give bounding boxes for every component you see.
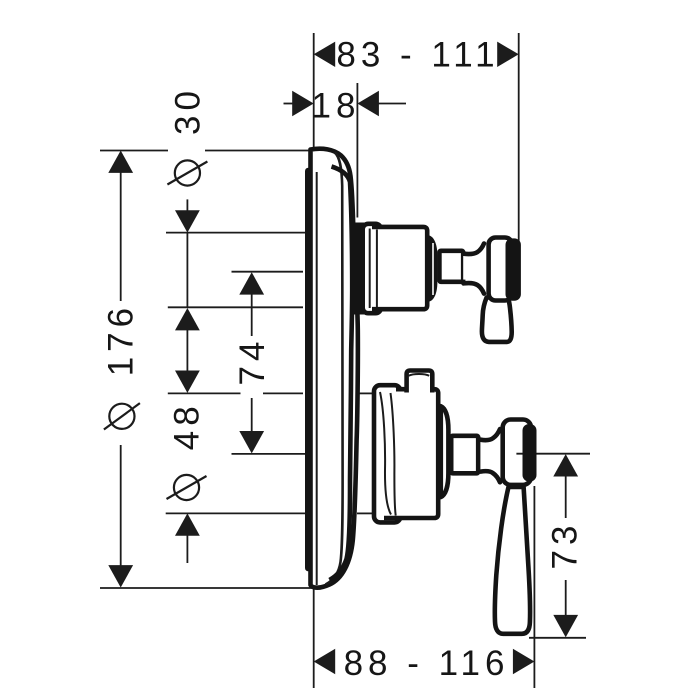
svg-text:73: 73	[546, 521, 585, 570]
svg-text:74: 74	[233, 337, 272, 386]
svg-text:88 - 116: 88 - 116	[344, 644, 510, 683]
svg-text:18: 18	[312, 87, 361, 126]
svg-text:176: 176	[102, 303, 141, 376]
svg-text:48: 48	[168, 401, 207, 450]
svg-text:83 - 111: 83 - 111	[336, 36, 499, 75]
svg-text:30: 30	[168, 86, 207, 135]
